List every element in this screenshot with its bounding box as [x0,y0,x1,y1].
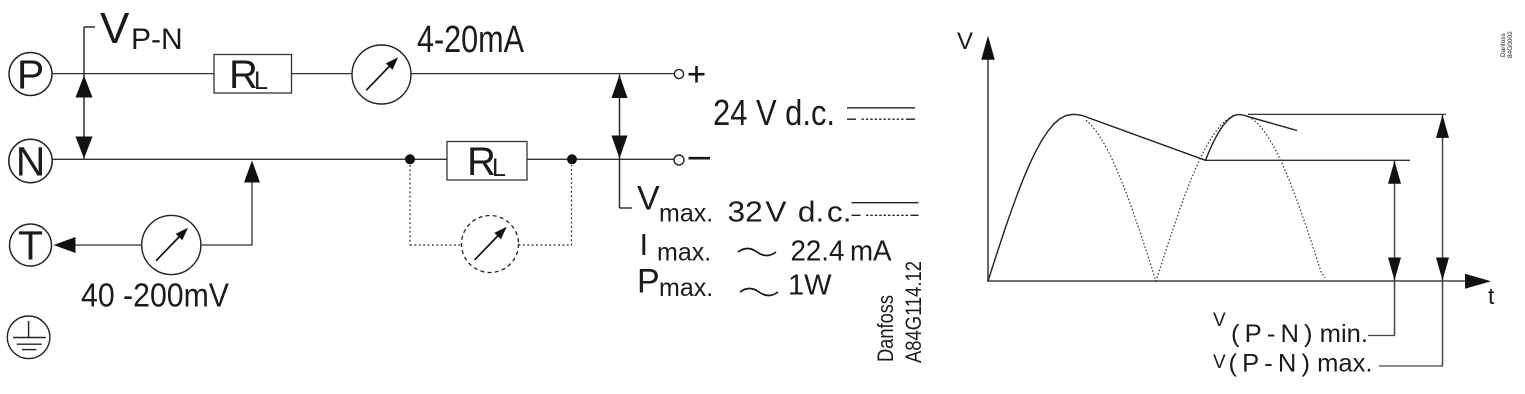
max measure line [1442,115,1444,366]
svg-text:L: L [254,67,268,95]
svg-text:P: P [17,52,44,98]
svg-text:P: P [637,263,660,301]
ref line Vmax level [1248,113,1446,115]
svg-text:max.: max. [659,200,713,228]
svg-text:24 V d.c.: 24 V d.c. [713,92,835,133]
minus sign [689,157,711,160]
label V(P-N) min. [1213,310,1368,348]
wire corner up to N [251,182,253,246]
svg-text:t: t [1488,283,1495,309]
dc symbol 2 dashed line [852,214,919,216]
terminal T [10,223,52,269]
junction dot right [567,154,577,164]
dashed branch right vertical [571,165,573,246]
min measure line [1394,161,1396,336]
t axis arrowhead [1465,274,1491,289]
svg-text:Danfoss: Danfoss [873,295,898,362]
arrowhead into T [54,237,76,253]
svg-text:N: N [16,139,46,185]
svg-text:I: I [640,227,649,262]
tilde 2 [740,289,778,296]
svg-text:P-N: P-N [131,23,183,56]
leader line min [1368,335,1395,337]
ref line Vmin level [1206,159,1411,161]
arrowhead up at + wire [612,75,628,98]
svg-text:32 V d. c.: 32 V d. c. [728,197,852,229]
label P max. ~ 1W [637,263,832,303]
vertical text Danfoss A84G114.12 [873,261,926,363]
svg-text:V: V [1213,352,1226,373]
wire M1 to + terminal [411,73,675,75]
terminal N [9,139,52,185]
wire RL1 to meter M1 [292,73,353,75]
ammeter M1 [352,45,411,104]
graph V axis [987,58,989,282]
svg-text:( P - N ) max.: ( P - N ) max. [1229,350,1373,378]
open terminal minus [674,155,684,165]
dc symbol 1 solid line [847,107,915,109]
leader line max [1379,365,1443,367]
plus sign [689,66,705,83]
wire T to meter M2 [75,244,142,246]
V axis arrowhead [981,36,995,60]
open terminal + [674,69,683,78]
svg-text:V: V [957,28,973,55]
tiny corner text Danfoss 84G0002 [1500,31,1514,58]
svg-text:( P - N ) min.: ( P - N ) min. [1231,320,1368,348]
label V max. 32 V d.c. [637,180,852,229]
dashed branch right horizontal [519,244,572,246]
label I max. ~ 22.4 mA [640,227,893,268]
V_P-N arrowhead down [76,137,93,159]
V_P-N measure line with bracket tick [84,27,95,159]
svg-text:max.: max. [657,239,711,267]
svg-text:A84G114.12: A84G114.12 [901,261,926,363]
svg-text:40 -200mV: 40 -200mV [81,277,229,314]
min arrowhead up [1388,161,1401,184]
arrowhead up into N wire [244,161,260,183]
wire N to RL2 [53,158,448,160]
graph t axis [987,280,1466,282]
wire M2 to corner [201,244,252,246]
svg-text:1W: 1W [788,270,832,302]
svg-text:V: V [100,4,130,53]
junction dot left [405,154,415,164]
min arrowhead down [1388,258,1401,281]
dashed branch left vertical [409,165,411,246]
svg-text:T: T [18,223,43,269]
dc symbol 1 dashed line [847,118,915,120]
svg-text:V: V [637,180,660,218]
svg-text:V: V [1213,310,1226,331]
arrowhead down at - wire [612,136,628,159]
meter M2 [142,215,201,274]
label V(P-N) max. [1213,350,1373,378]
resistor RL1 [214,53,292,97]
svg-text:max.: max. [659,274,713,302]
solid waveform [988,114,1297,281]
dc symbol 2 solid line [852,202,919,204]
wire P to RL1 [52,73,214,75]
terminal P [9,52,52,98]
svg-text:4-20mA: 4-20mA [417,19,525,61]
svg-text:Danfoss: Danfoss [1500,32,1507,57]
svg-text:L: L [492,154,506,182]
V_P-N arrowhead up [76,76,93,98]
svg-text:22.4 mA: 22.4 mA [791,236,893,268]
tilde 1 [738,249,776,256]
wire RL2 to - terminal [527,158,675,160]
label V P-N [100,4,183,56]
+/- measure line with bracket tick [620,75,633,209]
max arrowhead down [1436,258,1449,281]
ground symbol [7,316,50,359]
dotted rectified sine [1086,115,1325,282]
dashed branch left horizontal [410,244,462,246]
resistor RL2 [447,140,527,184]
max arrowhead up [1436,115,1449,138]
svg-text:84G0002: 84G0002 [1507,31,1514,58]
dashed meter M3 [462,216,519,273]
